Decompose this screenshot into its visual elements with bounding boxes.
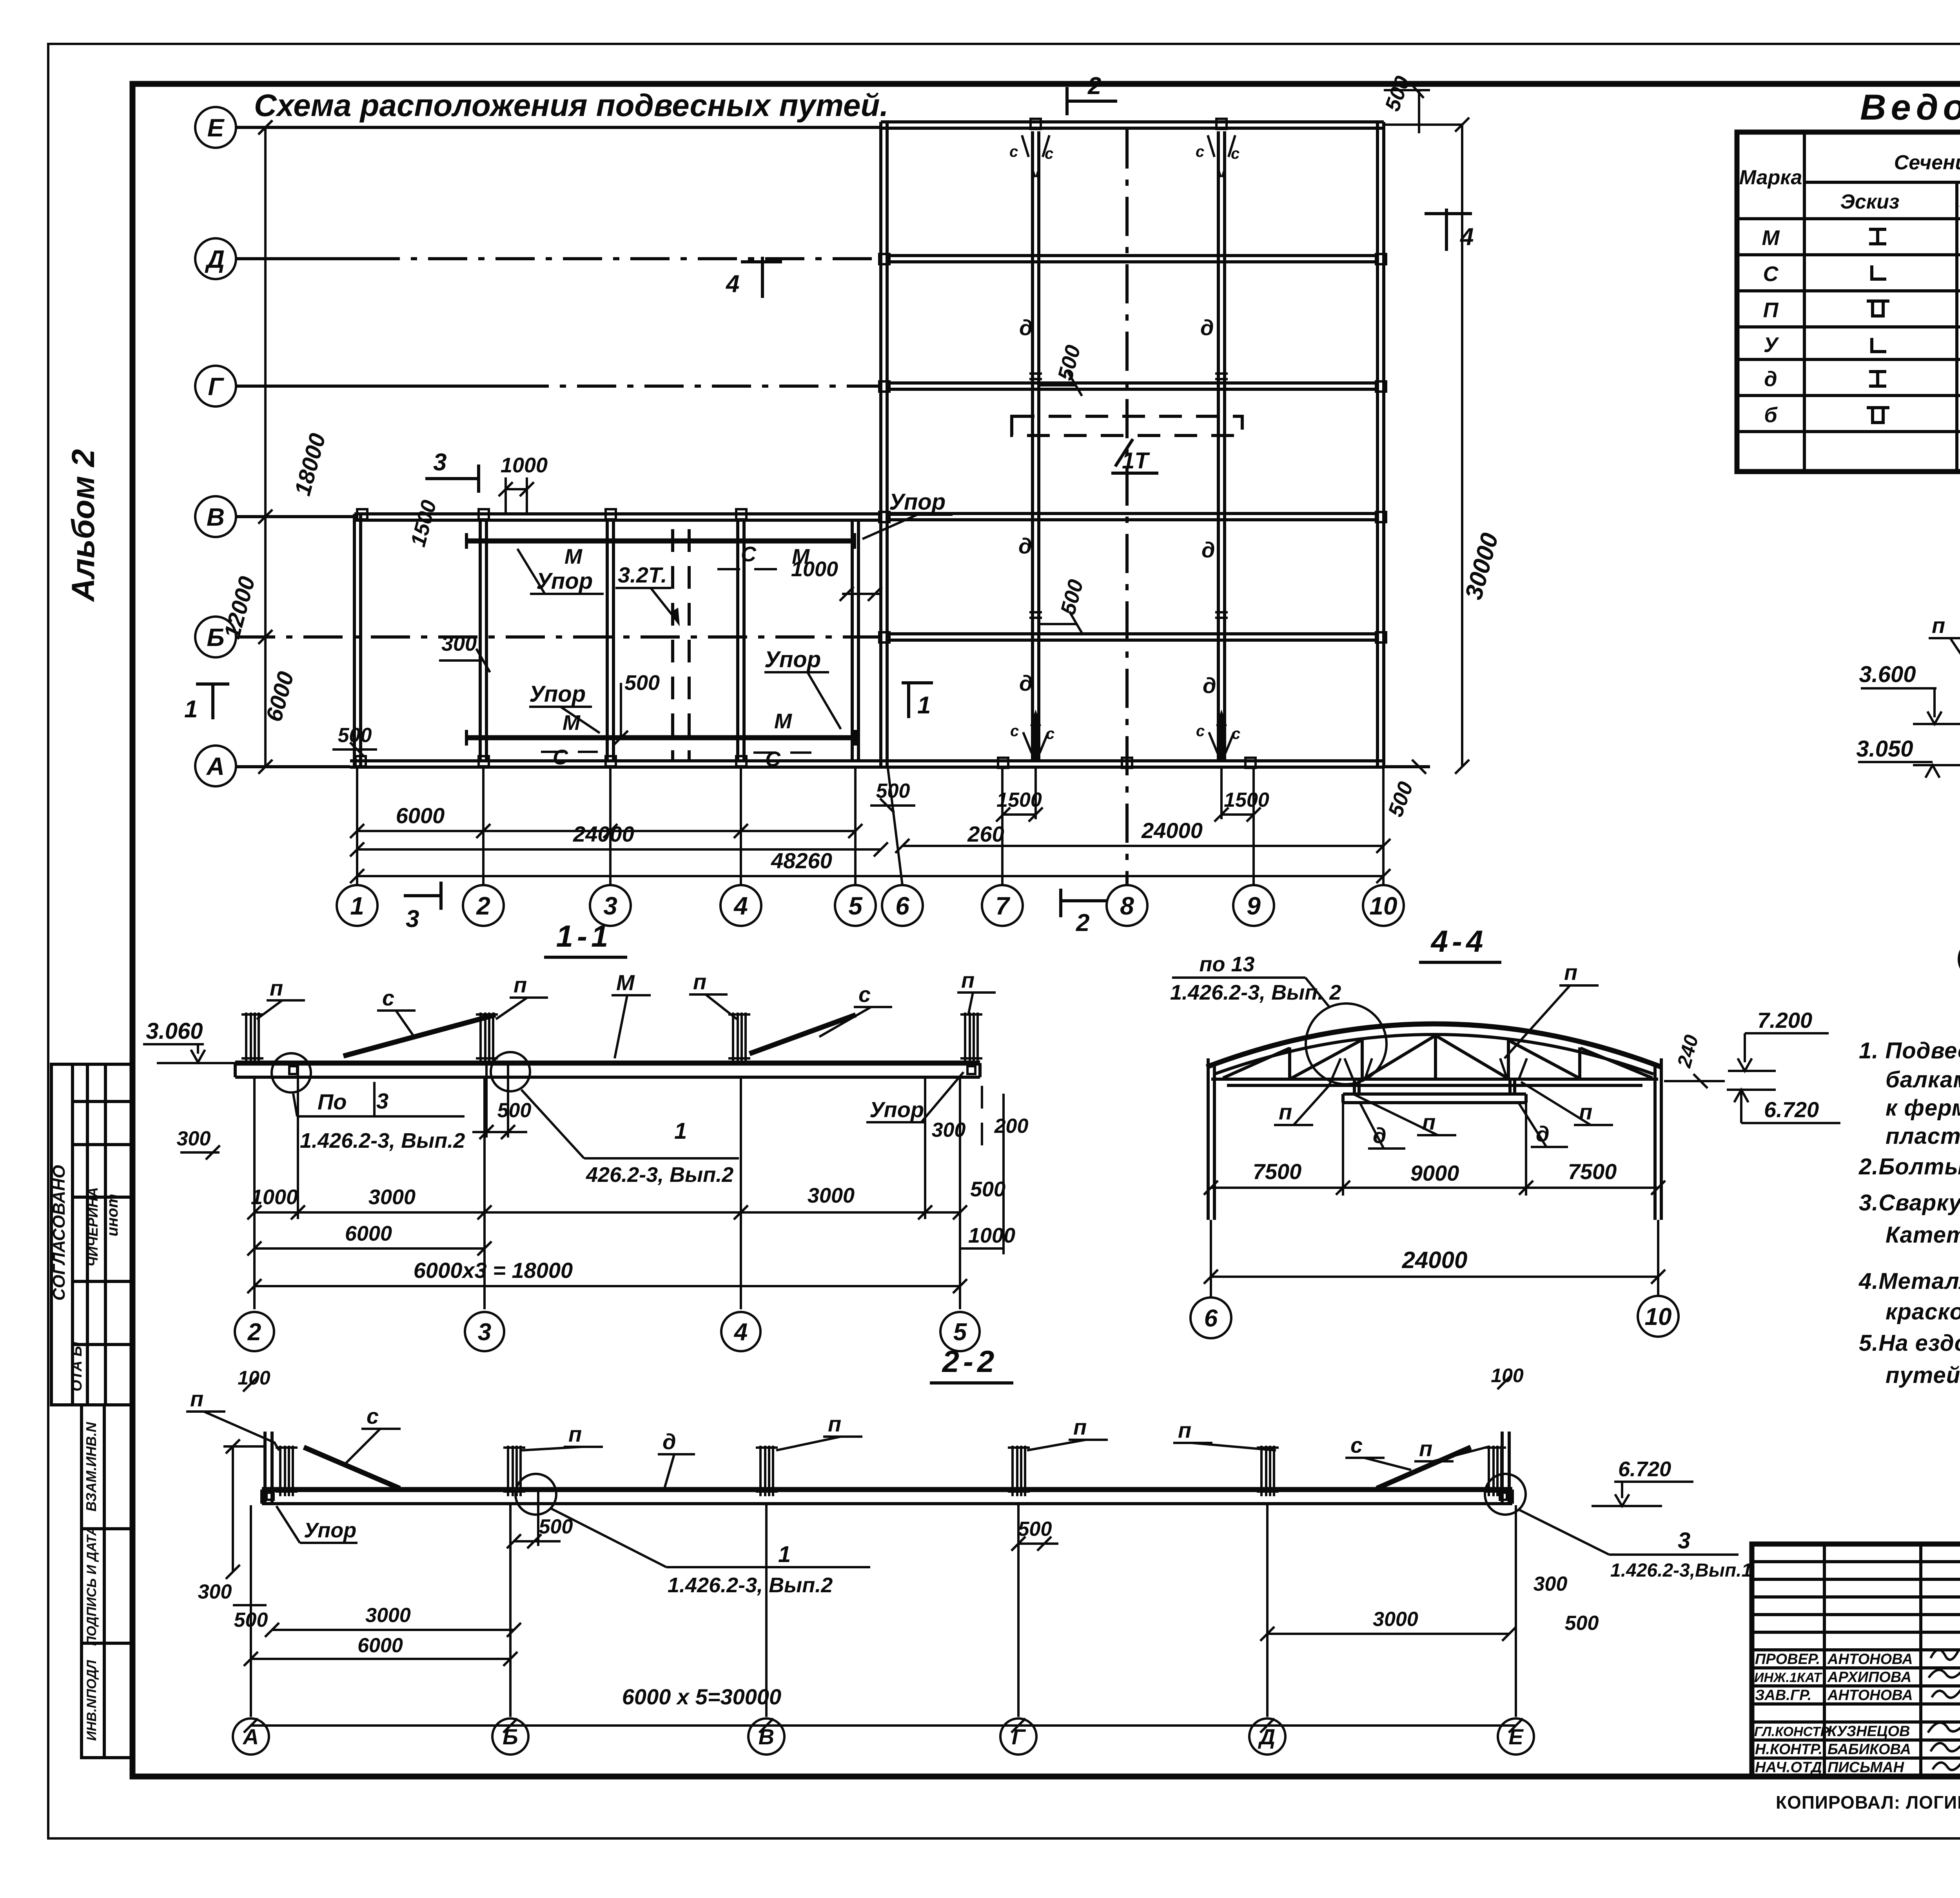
- svg-text:2: 2: [1087, 73, 1101, 100]
- svg-text:500: 500: [539, 1515, 573, 1538]
- svg-text:В: В: [207, 503, 225, 531]
- svg-text:1: 1: [917, 692, 931, 719]
- svg-text:АНТОНОВА: АНТОНОВА: [1827, 1687, 1913, 1704]
- svg-text:д: д: [662, 1429, 676, 1454]
- svg-text:КОПИРОВАЛ: ЛОГИНОВА: КОПИРОВАЛ: ЛОГИНОВА: [1776, 1792, 1960, 1813]
- svg-text:7.200: 7.200: [1757, 1008, 1812, 1032]
- svg-text:По: По: [318, 1089, 347, 1114]
- svg-text:Марка: Марка: [1739, 166, 1802, 189]
- svg-text:4-4: 4-4: [1430, 924, 1487, 958]
- svg-text:с: с: [1045, 145, 1053, 162]
- svg-text:Д: Д: [1258, 1724, 1275, 1749]
- svg-text:500: 500: [970, 1178, 1005, 1201]
- svg-text:3: 3: [1678, 1528, 1690, 1553]
- svg-text:д: д: [1203, 673, 1216, 698]
- svg-text:500: 500: [1565, 1612, 1599, 1635]
- svg-text:п: п: [828, 1412, 841, 1436]
- svg-text:М: М: [774, 709, 792, 733]
- svg-text:4: 4: [725, 270, 739, 298]
- svg-text:ИНВ.NПОДЛ: ИНВ.NПОДЛ: [84, 1660, 99, 1741]
- svg-text:п: п: [693, 969, 706, 994]
- svg-text:10: 10: [1645, 1303, 1672, 1330]
- svg-text:6000: 6000: [358, 1634, 403, 1657]
- svg-text:к ферман -крепятся болтами М16: к ферман -крепятся болтами М16 через: [1886, 1095, 1960, 1121]
- svg-text:с: с: [858, 982, 871, 1007]
- svg-text:Упор: Упор: [304, 1519, 356, 1542]
- svg-text:по 13: по 13: [1199, 953, 1254, 976]
- svg-text:ОТА БГ: ОТА БГ: [69, 1336, 85, 1392]
- svg-text:п: п: [514, 973, 527, 997]
- svg-text:3.060: 3.060: [146, 1018, 203, 1044]
- svg-text:В: В: [759, 1724, 774, 1749]
- svg-text:6000х3 = 18000: 6000х3 = 18000: [414, 1258, 573, 1283]
- svg-text:АРХИПОВА: АРХИПОВА: [1827, 1669, 1911, 1686]
- svg-text:С: С: [741, 543, 757, 566]
- svg-text:д: д: [1200, 315, 1214, 340]
- svg-text:Упор: Упор: [869, 1097, 924, 1122]
- svg-text:с: с: [1231, 145, 1240, 162]
- svg-text:А: А: [242, 1724, 259, 1749]
- svg-text:п: п: [1419, 1436, 1432, 1461]
- svg-text:1Т: 1Т: [1122, 448, 1150, 474]
- svg-text:балкам болтами М16 через пласт: балкам болтами М16 через пластины S=14;: [1886, 1067, 1960, 1092]
- svg-text:п: п: [1564, 960, 1577, 985]
- svg-text:5.На ездовые поверхности бал: 5.На ездовые поверхности балок подвесных: [1859, 1330, 1960, 1356]
- svg-text:1.426.2-3, Вып.2: 1.426.2-3, Вып.2: [668, 1573, 833, 1597]
- svg-text:3: 3: [603, 892, 617, 920]
- svg-text:7500: 7500: [1253, 1159, 1302, 1184]
- svg-text:АНТОНОВА: АНТОНОВА: [1827, 1651, 1913, 1668]
- svg-text:3.600: 3.600: [1859, 662, 1916, 687]
- svg-text:2: 2: [476, 892, 490, 920]
- svg-text:с: с: [382, 985, 394, 1010]
- svg-text:с: с: [1196, 722, 1205, 740]
- svg-text:2: 2: [1076, 909, 1089, 936]
- svg-text:ГЛ.КОНСТР: ГЛ.КОНСТР: [1754, 1724, 1829, 1739]
- svg-text:260: 260: [967, 822, 1004, 846]
- svg-text:100: 100: [238, 1367, 270, 1389]
- svg-text:п: п: [1073, 1415, 1087, 1439]
- svg-text:300: 300: [1534, 1573, 1568, 1595]
- svg-text:С: С: [553, 746, 568, 769]
- svg-text:1: 1: [184, 696, 198, 723]
- svg-text:6000: 6000: [345, 1222, 392, 1245]
- svg-text:7: 7: [995, 892, 1011, 920]
- svg-text:П: П: [1763, 298, 1779, 322]
- svg-text:1000: 1000: [968, 1224, 1015, 1247]
- svg-text:с: с: [1046, 725, 1054, 742]
- svg-text:3: 3: [376, 1089, 388, 1113]
- svg-text:НАЧ.ОТД: НАЧ.ОТД: [1755, 1759, 1822, 1776]
- svg-text:24000: 24000: [1141, 818, 1203, 843]
- svg-text:ВЗАМ.ИНВ.N: ВЗАМ.ИНВ.N: [83, 1422, 99, 1512]
- svg-text:3.Сварку вести электродами Э: 3.Сварку вести электродами Э42 ГОСТ 9467…: [1859, 1190, 1960, 1216]
- svg-text:А: А: [206, 752, 225, 780]
- svg-text:4: 4: [733, 1319, 748, 1346]
- svg-text:3000: 3000: [808, 1184, 855, 1207]
- svg-text:3000: 3000: [368, 1185, 416, 1209]
- svg-text:ЧИЧЕРИНА: ЧИЧЕРИНА: [85, 1187, 101, 1267]
- svg-text:п: п: [190, 1386, 203, 1411]
- svg-text:8: 8: [1120, 892, 1134, 920]
- svg-text:500: 500: [624, 671, 660, 695]
- svg-text:Упор: Упор: [764, 647, 821, 672]
- svg-text:д: д: [1201, 537, 1215, 562]
- svg-text:300: 300: [177, 1127, 211, 1150]
- svg-text:1.426.2-3, Вып. 2: 1.426.2-3, Вып. 2: [1170, 981, 1341, 1004]
- svg-text:Б: Б: [503, 1724, 518, 1749]
- svg-text:Упор: Упор: [889, 489, 946, 515]
- svg-text:Упор: Упор: [529, 681, 586, 707]
- svg-text:д: д: [1019, 315, 1033, 340]
- svg-text:300: 300: [441, 632, 477, 655]
- svg-text:6000 х 5=30000: 6000 х 5=30000: [622, 1684, 781, 1709]
- svg-text:1500: 1500: [996, 789, 1042, 811]
- svg-text:500: 500: [1018, 1518, 1052, 1541]
- svg-text:500: 500: [497, 1099, 532, 1122]
- svg-text:6.720: 6.720: [1618, 1457, 1671, 1481]
- svg-text:4.Металлоконструкции покрасить: 4.Металлоконструкции покрасить масляной: [1858, 1268, 1960, 1294]
- svg-text:пластины S= 10.: пластины S= 10.: [1886, 1123, 1960, 1149]
- svg-text:б: б: [1764, 403, 1778, 427]
- svg-text:М: М: [1762, 226, 1780, 250]
- svg-text:п: п: [568, 1422, 582, 1446]
- svg-text:Д: Д: [205, 245, 225, 273]
- svg-text:6000: 6000: [396, 803, 445, 828]
- svg-text:ПОДПИСЬ И ДАТА: ПОДПИСЬ И ДАТА: [84, 1526, 99, 1646]
- svg-text:1.426.2-3, Вып.2: 1.426.2-3, Вып.2: [300, 1129, 465, 1152]
- svg-text:1. Подвесные пути крепятся к с: 1. Подвесные пути крепятся к стропильным: [1859, 1038, 1960, 1063]
- svg-text:1000: 1000: [251, 1185, 298, 1209]
- svg-text:п: п: [270, 976, 283, 1000]
- svg-text:с: с: [1010, 722, 1019, 740]
- svg-text:инот: инот: [104, 1194, 121, 1237]
- svg-text:6.720: 6.720: [1764, 1097, 1819, 1122]
- svg-text:с: с: [1350, 1433, 1363, 1457]
- svg-text:1500: 1500: [1224, 789, 1269, 811]
- svg-text:С: С: [1763, 262, 1779, 286]
- svg-text:с: с: [1196, 143, 1204, 160]
- svg-text:3000: 3000: [365, 1604, 411, 1627]
- svg-text:ЗАВ.ГР.: ЗАВ.ГР.: [1755, 1687, 1811, 1704]
- svg-text:д: д: [1373, 1123, 1387, 1148]
- svg-text:д: д: [1764, 367, 1777, 391]
- svg-text:48260: 48260: [771, 848, 832, 873]
- svg-text:100: 100: [1491, 1365, 1524, 1386]
- svg-text:СОГЛАСОВАНО: СОГЛАСОВАНО: [49, 1165, 69, 1301]
- svg-text:5: 5: [848, 892, 863, 920]
- svg-text:Н.КОНТР.: Н.КОНТР.: [1755, 1741, 1822, 1758]
- svg-text:Г: Г: [208, 372, 224, 401]
- svg-text:Упор: Упор: [536, 568, 593, 594]
- svg-text:ПРОВЕР.: ПРОВЕР.: [1755, 1651, 1820, 1668]
- svg-text:426.2-3, Вып.2: 426.2-3, Вып.2: [586, 1163, 733, 1187]
- svg-text:п: п: [1932, 613, 1945, 638]
- svg-text:3: 3: [406, 905, 419, 933]
- svg-text:4: 4: [733, 892, 748, 920]
- svg-text:Ведомость элементов.: Ведомость элементов.: [1860, 87, 1960, 127]
- svg-text:500: 500: [338, 724, 372, 747]
- svg-text:9: 9: [1247, 892, 1261, 920]
- svg-text:2: 2: [247, 1319, 261, 1346]
- svg-text:200: 200: [994, 1115, 1029, 1138]
- svg-text:5: 5: [953, 1319, 967, 1346]
- svg-text:путей защитный слой не нанос: путей защитный слой не наносится.: [1886, 1363, 1960, 1388]
- svg-text:Сечение: Сечение: [1894, 151, 1960, 174]
- svg-text:1000: 1000: [791, 557, 838, 581]
- svg-text:7500: 7500: [1568, 1159, 1617, 1184]
- svg-text:6: 6: [895, 892, 909, 920]
- svg-text:КУЗНЕЦОВ: КУЗНЕЦОВ: [1828, 1723, 1910, 1740]
- svg-text:Е: Е: [1508, 1724, 1524, 1749]
- svg-text:6: 6: [1204, 1305, 1218, 1332]
- svg-text:1-1: 1-1: [556, 919, 612, 953]
- svg-text:М: М: [563, 711, 581, 735]
- svg-text:24000: 24000: [573, 822, 634, 846]
- svg-text:3.050: 3.050: [1856, 736, 1913, 762]
- svg-text:с: с: [367, 1404, 379, 1428]
- svg-text:ПИСЬМАН: ПИСЬМАН: [1828, 1759, 1905, 1776]
- svg-text:Эскиз: Эскиз: [1840, 191, 1900, 213]
- svg-text:1: 1: [674, 1118, 687, 1144]
- svg-text:ИНЖ.1КАТ: ИНЖ.1КАТ: [1754, 1670, 1823, 1685]
- svg-text:с: с: [1009, 143, 1018, 160]
- svg-text:БАБИКОВА: БАБИКОВА: [1828, 1741, 1911, 1758]
- svg-text:краской ГОСТ 8292-85 за 2 раз: краской ГОСТ 8292-85 за 2 раза.: [1886, 1299, 1960, 1325]
- svg-text:24000: 24000: [1402, 1247, 1468, 1273]
- svg-text:4: 4: [1459, 223, 1474, 250]
- svg-text:п: п: [1178, 1418, 1191, 1443]
- svg-text:С: С: [765, 748, 781, 771]
- svg-text:1: 1: [350, 892, 364, 920]
- svg-text:Альбом 2: Альбом 2: [65, 449, 101, 602]
- svg-text:М: М: [564, 545, 583, 568]
- svg-text:д: д: [1018, 533, 1032, 558]
- svg-text:1.426.2-3,Вып.1: 1.426.2-3,Вып.1: [1610, 1560, 1752, 1581]
- svg-text:п: п: [1279, 1100, 1292, 1124]
- svg-text:д: д: [1019, 671, 1033, 695]
- svg-text:3.2Т.: 3.2Т.: [618, 563, 667, 587]
- svg-text:300: 300: [198, 1580, 232, 1603]
- svg-text:2-2: 2-2: [942, 1344, 998, 1379]
- svg-text:с: с: [1232, 725, 1240, 742]
- svg-text:Г: Г: [1012, 1724, 1026, 1749]
- svg-text:М: М: [616, 970, 635, 995]
- svg-text:2.Болты класса точности В Г: 2.Болты класса точности В ГОСТ 7798-70.: [1858, 1154, 1960, 1179]
- svg-text:9000: 9000: [1410, 1161, 1459, 1185]
- svg-text:п: п: [961, 968, 975, 993]
- svg-text:1000: 1000: [501, 454, 548, 477]
- svg-text:Катет шва 6 мм.: Катет шва 6 мм.: [1886, 1222, 1960, 1248]
- svg-text:3: 3: [433, 449, 446, 476]
- svg-text:У: У: [1764, 333, 1779, 357]
- svg-text:Схема расположения подвесных п: Схема расположения подвесных путей.: [254, 88, 889, 123]
- svg-text:1: 1: [778, 1542, 791, 1567]
- svg-text:Е: Е: [207, 114, 225, 142]
- svg-text:3000: 3000: [1373, 1608, 1418, 1631]
- svg-text:10: 10: [1369, 892, 1397, 920]
- svg-text:3: 3: [478, 1319, 491, 1346]
